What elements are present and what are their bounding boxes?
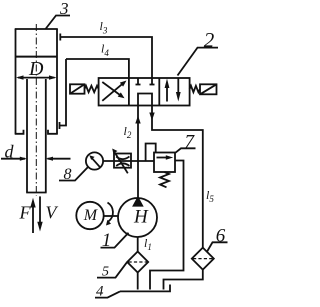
valve right position down arrow <box>176 79 181 102</box>
wire l4 horizontal <box>66 59 129 78</box>
label 7 leader <box>175 148 195 153</box>
svg-text:3: 3 <box>59 0 69 18</box>
throttle top arc <box>116 156 129 159</box>
pressure gauge 8 <box>86 152 103 169</box>
filter 6 element dashed <box>193 258 213 260</box>
label 4 leader <box>95 291 120 297</box>
throttle adjust arrow <box>112 149 128 174</box>
relief valve 7 body <box>154 153 175 173</box>
pump 1 circle <box>118 198 157 237</box>
label 8 leader <box>59 167 88 181</box>
wire relief outlet to tank <box>150 161 184 290</box>
wire l3 cylinder top port tick <box>59 34 61 41</box>
motor M circle <box>76 202 103 229</box>
left return spring <box>85 86 99 92</box>
cylinder centerline <box>35 24 37 196</box>
wire T line valve down <box>152 106 203 248</box>
T line flow arrow down <box>149 113 154 121</box>
piston rod right line <box>45 79 47 193</box>
wire P line pump to valve <box>137 106 139 199</box>
svg-text:8: 8 <box>64 166 72 183</box>
rod dimension d arrow left <box>1 157 27 161</box>
rotation direction arrow <box>106 203 113 226</box>
throttle bottom arc <box>116 163 129 166</box>
pump output triangle <box>132 196 144 207</box>
P line flow arrow up <box>135 116 140 124</box>
tank 4 <box>120 285 170 292</box>
valve 2 body <box>99 78 190 106</box>
cylinder 3 barrel left wall <box>15 29 17 134</box>
label 2 leader <box>178 48 219 76</box>
label 5 leader <box>97 262 127 277</box>
cylinder bottom gland right <box>48 130 58 134</box>
svg-text:2: 2 <box>204 28 215 52</box>
valve 2 box divider left <box>128 78 130 106</box>
svg-text:1: 1 <box>102 230 112 251</box>
label 1 leader <box>101 233 129 248</box>
cylinder 3 top cap edge <box>15 28 58 30</box>
svg-text:d: d <box>5 142 15 162</box>
force F arrow <box>30 198 35 233</box>
svg-text:7: 7 <box>185 131 196 152</box>
svg-text:6: 6 <box>216 225 226 246</box>
wire l4 rod-side port tick <box>59 122 61 129</box>
cylinder 3 barrel right wall <box>56 29 58 134</box>
valve centre position blocked port A stub <box>137 78 139 85</box>
valve centre position P-T bypass U <box>138 94 152 106</box>
gauge needle <box>89 155 100 167</box>
wire filter 6 drain to tank <box>164 270 203 290</box>
relief valve pilot line <box>146 144 156 162</box>
wire l1 pump suction <box>137 237 139 252</box>
svg-text:M: M <box>83 207 99 224</box>
relief valve flow arrow <box>157 155 174 159</box>
wire l4 down to rod-side port <box>60 59 67 126</box>
bore dimension D arrow <box>16 75 57 79</box>
wire filter 5 to tank <box>137 273 139 290</box>
right return spring <box>190 86 200 92</box>
label 6 leader <box>207 242 228 252</box>
throttle damper body <box>114 154 131 168</box>
piston of cylinder 3 <box>16 56 58 58</box>
piston rod left line <box>26 79 28 193</box>
wire gauge branch through throttle to relief valve <box>103 160 154 162</box>
svg-text:4: 4 <box>96 284 104 300</box>
left solenoid of valve 2 <box>70 84 85 93</box>
filter 5 diamond <box>127 252 148 273</box>
valve centre position blocked port B stub <box>151 78 153 85</box>
valve left position crossed arrow 1 <box>102 81 126 101</box>
svg-text:H: H <box>133 207 149 228</box>
svg-text:D: D <box>28 58 44 80</box>
right solenoid of valve 2 <box>200 84 217 94</box>
filter 5 element dashed <box>129 261 148 263</box>
svg-text:5: 5 <box>102 265 109 280</box>
wire l3 horizontal <box>60 37 152 78</box>
relief valve spring <box>160 172 169 187</box>
piston rod end face <box>26 192 46 194</box>
rod dimension d arrow right <box>46 157 71 161</box>
valve 2 box divider right <box>158 78 160 106</box>
valve right position up arrow <box>165 79 170 102</box>
filter 6 diamond <box>192 248 214 270</box>
cylinder bottom gland left <box>15 130 24 134</box>
label 3 leader <box>46 16 71 30</box>
motor-pump shaft <box>104 215 118 217</box>
valve left position crossed arrow 2 <box>102 82 124 98</box>
svg-text:F: F <box>19 203 32 223</box>
velocity V arrow <box>37 196 42 231</box>
